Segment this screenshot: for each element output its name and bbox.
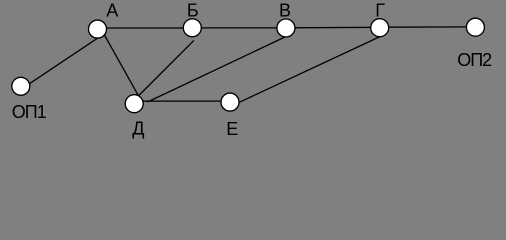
wire D-E (139, 100, 226, 102)
wire OP1-A (25, 38, 98, 87)
wire G-OP2 (378, 26, 479, 28)
svg-text:ОП1: ОП1 (12, 102, 47, 122)
wire A-B (95, 27, 195, 29)
node B (183, 19, 201, 37)
wire V-G (283, 26, 382, 29)
node A (89, 20, 107, 38)
svg-text:ОП2: ОП2 (457, 50, 492, 70)
svg-text:Б: Б (187, 1, 199, 21)
svg-text:Е: Е (226, 119, 238, 139)
node V (277, 19, 295, 37)
wire B-V (190, 27, 288, 29)
wire A-D (102, 31, 141, 101)
node OP2 (466, 18, 484, 36)
svg-text:А: А (106, 1, 118, 21)
svg-text:Г: Г (375, 1, 385, 21)
node OP1 (12, 77, 30, 95)
svg-text:Д: Д (132, 118, 144, 138)
wire V-D (148, 33, 294, 102)
wire B-D (133, 40, 194, 101)
node E (221, 93, 239, 111)
node D (125, 95, 143, 113)
wire E-G (235, 36, 381, 104)
node G (371, 19, 389, 37)
svg-text:В: В (279, 1, 291, 21)
